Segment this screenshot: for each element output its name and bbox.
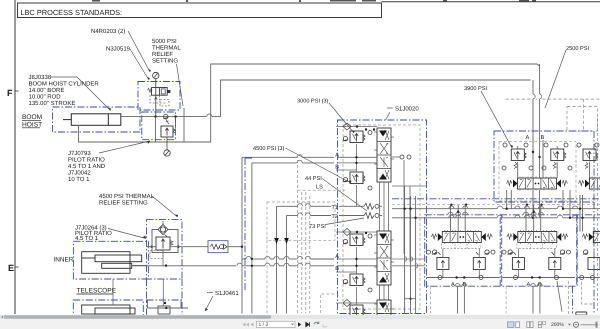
label BOOM HOIST — [22, 114, 42, 129]
bank L blue box — [425, 215, 502, 286]
svg-text:200%: 200% — [551, 322, 564, 328]
module3 vspool — [374, 231, 394, 285]
gauge port bottom — [166, 137, 168, 150]
svg-text:RELIEF SETTING: RELIEF SETTING — [99, 200, 148, 207]
rotate icons — [314, 322, 319, 325]
slider — [581, 324, 599, 326]
blue box directional part — [138, 82, 180, 111]
svg-text:LS: LS — [316, 185, 323, 191]
svg-text:N4R0203 (2): N4R0203 (2) — [91, 28, 125, 35]
blue box telescope cylinder — [73, 241, 148, 279]
T1 drop — [276, 206, 278, 313]
junction verticals — [405, 186, 416, 314]
svg-text:A: A — [451, 282, 455, 288]
svg-text:2500 PSI: 2500 PSI — [566, 46, 589, 52]
right ports module1 — [400, 155, 404, 159]
spool interconnect verticals — [380, 182, 389, 300]
B bus — [132, 265, 236, 267]
rod line to valve — [120, 116, 207, 118]
dashed vline far right — [597, 118, 599, 311]
bank R top edge hops — [523, 212, 528, 215]
bank R internals — [502, 205, 575, 314]
bank L spool — [431, 230, 492, 244]
A bus — [242, 258, 245, 260]
svg-text:B: B — [541, 135, 545, 141]
telescope relief valve — [156, 237, 170, 250]
bank L relief connectors — [443, 249, 479, 278]
bank L top edge hops — [448, 212, 453, 215]
svg-text:4500 PSI THERMAL: 4500 PSI THERMAL — [99, 193, 155, 200]
leader J8J0338 — [51, 77, 111, 111]
boom cylinder — [63, 114, 121, 126]
bundle verticals — [507, 140, 570, 218]
blue box central bank — [338, 120, 427, 314]
svg-text:T2: T2 — [332, 214, 338, 220]
junction dots — [154, 115, 156, 117]
svg-text:LBC PROCESS STANDARDS:: LBC PROCESS STANDARDS: — [20, 8, 122, 17]
module1 vspool — [374, 128, 394, 182]
first page btn — [242, 323, 250, 327]
bank R pilot dashes — [517, 244, 557, 249]
svg-text:4.5 TO 1 AND: 4.5 TO 1 AND — [68, 163, 106, 170]
bottom junction — [409, 298, 411, 300]
svg-text:1 / 2: 1 / 2 — [259, 322, 269, 328]
partial bank far right spool — [582, 230, 600, 244]
blue box telescope valve — [147, 220, 183, 279]
svg-text:4500 PSI (3): 4500 PSI (3) — [253, 145, 285, 152]
svg-text:PILOT RATIO: PILOT RATIO — [68, 157, 105, 164]
label 4500 psi thermal — [75, 193, 178, 242]
pilot dashed verticals — [302, 192, 310, 313]
gauge port top — [153, 72, 159, 78]
svg-text:BOOM: BOOM — [22, 114, 42, 121]
far right partial — [583, 250, 588, 254]
module 3 feed line — [336, 231, 377, 233]
prev btn — [251, 323, 254, 327]
spools — [507, 177, 568, 191]
directional valve body — [147, 79, 170, 117]
svg-text:BOOM HOIST CYLINDER: BOOM HOIST CYLINDER — [29, 81, 100, 88]
module 4 relief — [336, 271, 357, 273]
svg-text:44 PSI: 44 PSI — [305, 176, 322, 182]
svg-text:N3J0519: N3J0519 — [106, 46, 131, 53]
svg-text:14.00" BORE: 14.00" BORE — [29, 87, 65, 94]
boom drain wire — [184, 64, 537, 142]
svg-text:5000 PSI: 5000 PSI — [152, 38, 177, 45]
svg-text:S1J0461: S1J0461 — [215, 290, 239, 297]
bypass lines — [155, 117, 157, 142]
bank R spool — [507, 230, 568, 244]
svg-text:E: E — [8, 263, 14, 273]
vertical feed x=251.9 — [251, 163, 253, 314]
svg-text:A: A — [526, 135, 530, 141]
leader 5000psi — [177, 64, 184, 106]
pilot dashed sub-box — [150, 251, 163, 259]
svg-text:10.00" ROD: 10.00" ROD — [29, 94, 62, 101]
relief valve boom — [161, 120, 175, 138]
svg-text:10 TO 1: 10 TO 1 — [68, 176, 90, 183]
inner gray dashed box — [343, 125, 420, 309]
cylinder bottom wire — [79, 125, 211, 142]
svg-text:3900 PSI: 3900 PSI — [464, 86, 487, 92]
svg-text:F: F — [7, 88, 13, 98]
tank symbol bottom right — [576, 312, 587, 315]
leader N3J0519 — [130, 49, 149, 80]
svg-text:135.00" STROKE: 135.00" STROKE — [29, 100, 76, 107]
page field — [257, 321, 296, 327]
svg-text:SETTING: SETTING — [152, 58, 178, 65]
svg-text:J8J0338: J8J0338 — [29, 74, 52, 81]
left border line — [14, 0, 16, 314]
svg-text:RELIEF: RELIEF — [152, 51, 173, 58]
svg-text:73 PSI: 73 PSI — [309, 224, 326, 230]
check circle — [163, 114, 168, 118]
blue partial enclosure — [245, 158, 254, 290]
view mode icons — [508, 322, 515, 328]
bank L pilot dashes — [441, 244, 481, 249]
small R ports — [502, 166, 506, 170]
relief valves top-right bank — [511, 149, 526, 161]
bank R blue box — [500, 215, 577, 286]
blue box boom cylinder — [53, 107, 141, 132]
wires inside bank — [337, 144, 377, 305]
hop on rod line — [207, 114, 212, 117]
wire2 up and across — [221, 80, 531, 117]
telescope valve wires — [151, 246, 153, 248]
T2 line — [287, 215, 298, 217]
label J7J0793 — [68, 141, 150, 183]
wire A1 — [242, 156, 297, 158]
wo box — [208, 241, 228, 253]
zoom out circle — [573, 322, 578, 327]
valve box right edge line — [183, 108, 185, 142]
bank L bottom line — [427, 277, 500, 279]
T2 drop — [286, 216, 288, 314]
top cut-off text fragments — [92, 0, 536, 2]
bank L reliefs — [434, 252, 485, 270]
module 1 feed line — [336, 126, 377, 128]
module 3 relief — [350, 234, 365, 246]
module 2 relief — [336, 169, 357, 171]
orifice T1 — [364, 203, 374, 209]
blue box relief part — [142, 112, 176, 140]
svg-text:HOIST: HOIST — [22, 122, 42, 129]
vertical feed x=242 — [241, 157, 243, 313]
wire B1 — [252, 162, 297, 164]
leader N4R0203 — [128, 31, 150, 72]
last btn — [306, 322, 310, 326]
svg-text:S1J0020: S1J0020 — [395, 106, 419, 113]
module 1 relief — [350, 131, 365, 143]
svg-text:T1: T1 — [332, 205, 338, 211]
T1 line — [277, 205, 298, 207]
springs below — [514, 162, 556, 169]
module 1 small ports — [365, 128, 367, 130]
svg-text:THERMAL: THERMAL — [152, 45, 181, 52]
pilot dashed lines under valve — [150, 95, 166, 103]
svg-text:A: A — [527, 282, 531, 288]
telescope cylinder — [82, 252, 142, 274]
rod line — [132, 264, 147, 266]
svg-text:3000 PSI (3): 3000 PSI (3) — [297, 98, 329, 105]
svg-text:INNER: INNER — [54, 257, 74, 264]
module 5 relief cut — [336, 302, 377, 304]
gray dashed box — [499, 142, 576, 201]
next btn — [298, 322, 301, 326]
svg-text:J7J0793: J7J0793 — [68, 150, 91, 157]
orifice T2 — [364, 213, 374, 219]
svg-text:TELESCOPE: TELESCOPE — [77, 288, 117, 295]
bank L feeds — [451, 205, 466, 314]
svg-text:J7J0042: J7J0042 — [68, 170, 91, 177]
check valve telescope: circle in diamond — [152, 230, 178, 253]
blue box top right bank — [494, 131, 594, 202]
